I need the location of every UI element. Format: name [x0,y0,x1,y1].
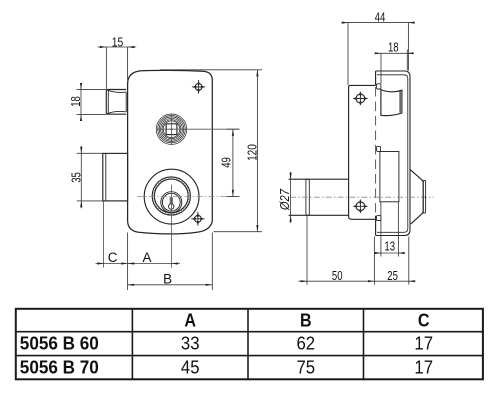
svg-text:75: 75 [297,357,316,378]
dimension 18 (latch height) [77,84,107,120]
extension body right edge down [211,233,213,291]
cylinder vertical centerline [170,185,172,268]
deadbolt head [103,153,128,201]
cylinder bulge right [410,169,426,224]
svg-text:35: 35 [68,172,83,183]
case inner top line [377,75,408,233]
svg-text:A: A [184,310,196,331]
dimension 18 (knob depth) [375,50,411,84]
svg-text:44: 44 [375,9,386,24]
dimension 15 (latch width) [98,47,137,89]
svg-text:49: 49 [219,157,234,168]
svg-text:17: 17 [414,333,433,354]
extension deadbolt left edge down [103,201,105,268]
dimension line C A [96,263,181,265]
lock body front view outline [128,70,213,234]
dimension 50 and 25 [299,216,416,285]
cylinder centerline (dash-dot) [290,196,434,198]
cylinder rosette outer circle [144,169,199,224]
knob tab top [377,84,381,89]
cylinder (side view) body [289,179,349,215]
screw hole bottom right [191,212,204,226]
side plate screw top [353,92,367,106]
svg-text:18: 18 [388,40,399,55]
middle tab on hidden edge [377,146,381,151]
svg-text:45: 45 [181,357,200,378]
dimension 49 (spindle to cylinder) [227,129,240,196]
svg-text:50: 50 [332,268,343,283]
dimension 35 (deadbolt height) [77,146,103,208]
case hidden left edge (dashed) [375,87,377,215]
table grid [15,308,484,380]
screw hole top right [192,80,205,94]
dimension 13 (inner box) [375,202,405,257]
svg-text:13: 13 [384,239,395,254]
case left edge solid segments [375,71,377,236]
svg-text:C: C [418,310,430,331]
spindle square hole [166,124,177,135]
svg-text:120: 120 [245,144,260,161]
svg-text:33: 33 [181,333,200,354]
svg-text:B: B [300,310,312,331]
latch bolt head [106,90,126,115]
thumbturn knob profile [381,90,402,116]
table header A B C [184,310,429,331]
dimension line B [128,284,213,286]
knob tab bottom [377,216,381,221]
inner lock box [380,152,399,202]
spindle center dot [171,128,173,130]
key cylinder [161,192,182,213]
spindle follower rings [156,114,186,144]
svg-text:Ø27: Ø27 [277,189,292,211]
extension body left edge down [127,233,129,291]
svg-text:17: 17 [414,357,433,378]
svg-text:15: 15 [112,35,124,50]
dimension d27 (cylinder) [290,172,292,223]
side plate screw bottom [353,200,367,214]
spindle centerlines [157,114,240,144]
svg-text:62: 62 [297,333,316,354]
svg-text:B: B [163,272,172,287]
svg-text:18: 18 [68,96,83,107]
cylinder rosette ring [152,177,190,215]
keyhole [169,198,174,209]
svg-text:5056 B 70: 5056 B 70 [20,357,99,378]
svg-text:5056 B 60: 5056 B 60 [20,333,99,354]
dimension texts [68,9,399,286]
svg-text:C: C [108,250,118,265]
dimension 120 (body height) [160,70,262,232]
cylinder horizontal centerline (dash-dot) [137,196,240,198]
dimension 44 (total depth) [342,23,415,85]
svg-text:25: 25 [387,268,398,283]
side view faceplate [349,85,376,219]
side view case outline [376,71,410,236]
svg-text:A: A [143,250,152,265]
